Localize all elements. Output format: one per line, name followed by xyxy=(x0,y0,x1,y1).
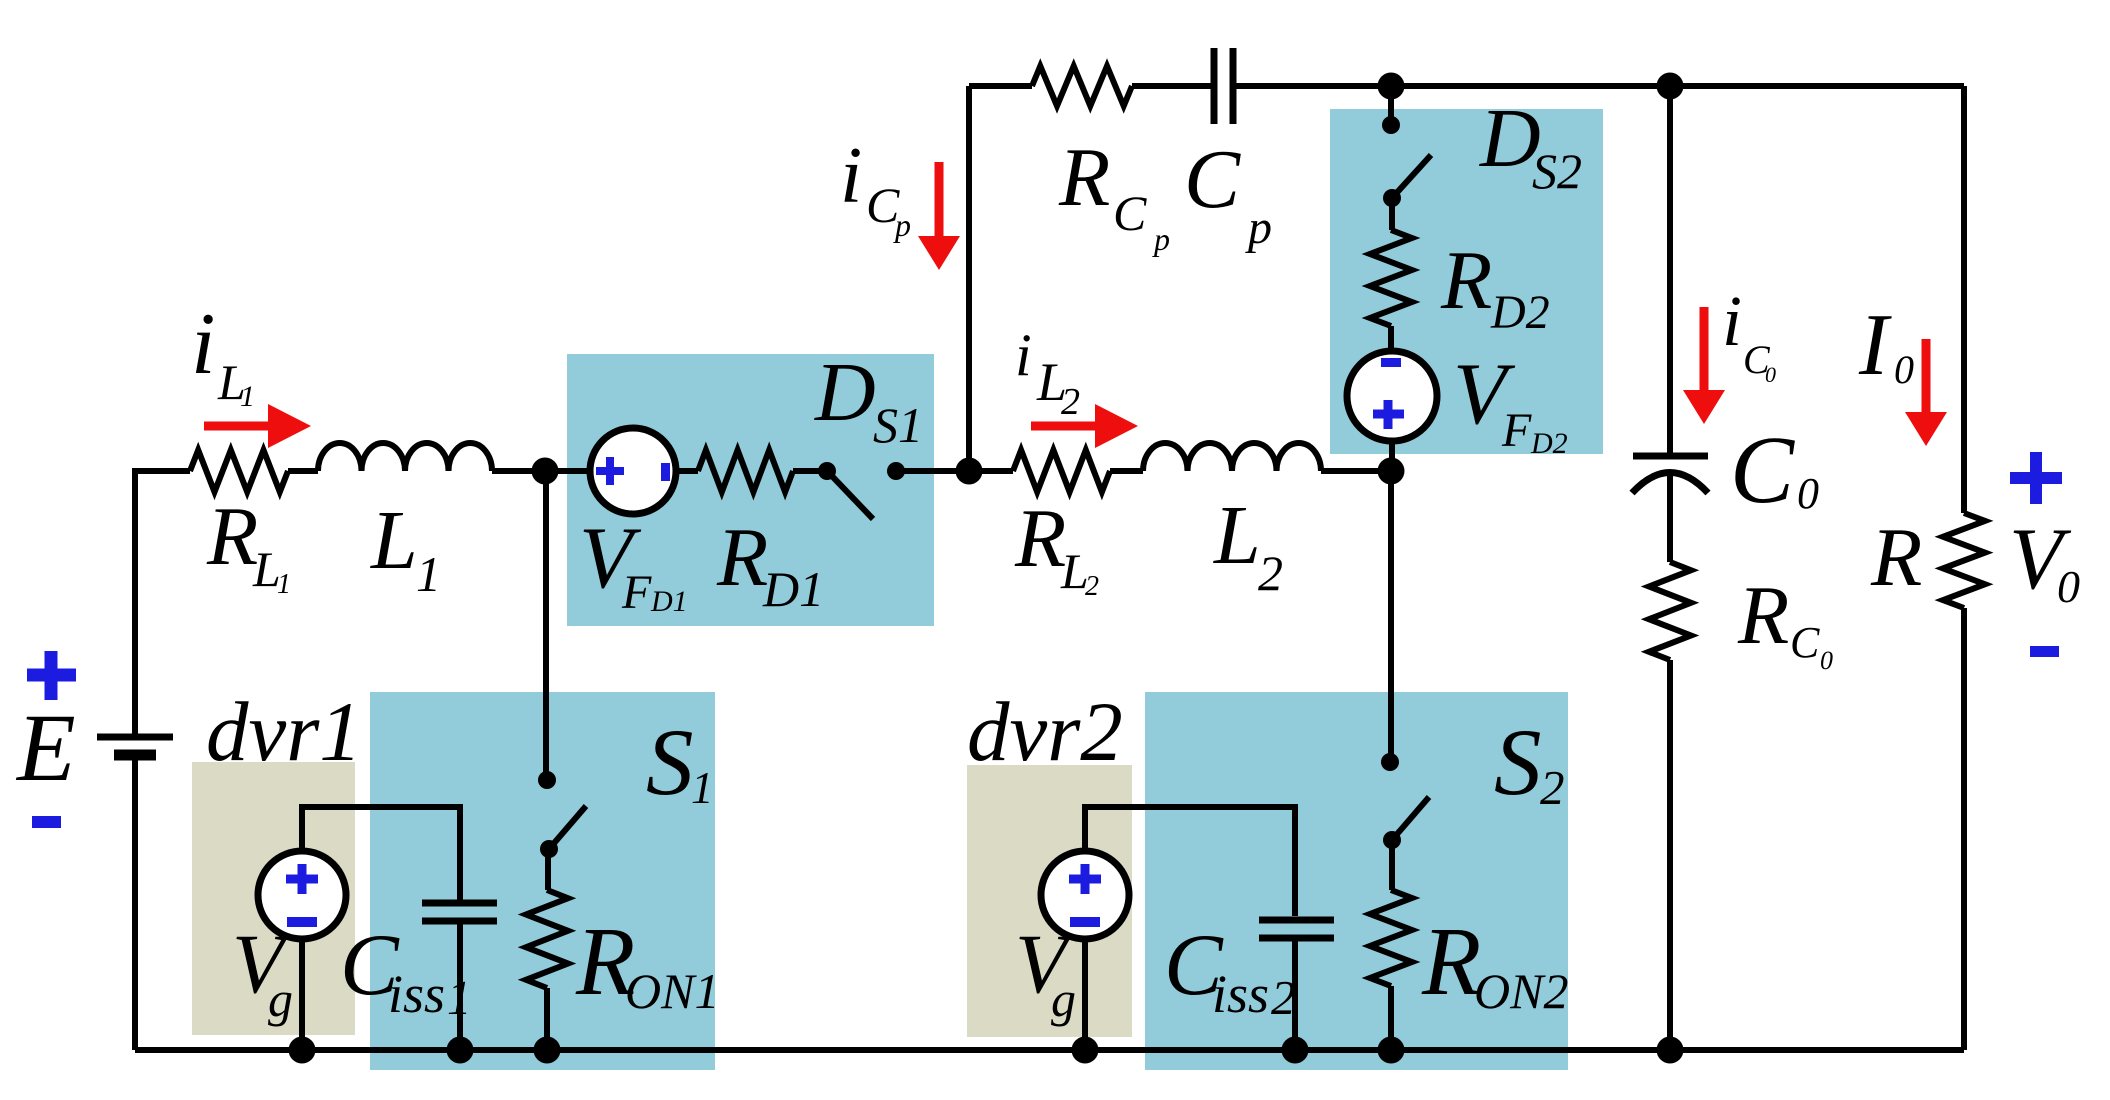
svg-text:C: C xyxy=(1113,185,1147,241)
inductor L1 xyxy=(318,443,492,471)
switch S2 top contact dot xyxy=(1381,753,1399,771)
svg-text:iss: iss xyxy=(388,964,445,1024)
label V_0 xyxy=(2009,511,2080,612)
switch S1 arm xyxy=(549,806,586,849)
label C_p xyxy=(1184,133,1272,254)
E minus sign xyxy=(32,816,61,828)
V_g dvr1 plus sign xyxy=(286,864,318,894)
wire node B to R_L2 xyxy=(969,468,1013,474)
V_g dvr1 minus sign xyxy=(287,917,317,927)
svg-text:D1: D1 xyxy=(650,585,688,618)
wire V_g1 top to gate of S1 xyxy=(302,807,460,900)
svg-text:ON1: ON1 xyxy=(625,963,719,1019)
svg-text:0: 0 xyxy=(1765,362,1776,387)
wire top rail into D_S2 xyxy=(1388,86,1394,125)
label C_0 xyxy=(1730,416,1819,523)
current arrow i_C0 xyxy=(1700,307,1709,396)
wire L1 to node A xyxy=(492,468,590,474)
wire: node B riser to top rail xyxy=(966,86,972,471)
svg-text:C: C xyxy=(1730,416,1795,523)
svg-text:R: R xyxy=(1737,569,1789,662)
V_g dvr2 plus sign xyxy=(1069,864,1101,894)
voltage source V_FD1 xyxy=(590,428,676,514)
capacitor C_0 curved plate xyxy=(1632,473,1708,494)
voltage source V_g of dvr2 xyxy=(1041,851,1129,939)
svg-text:2: 2 xyxy=(1061,381,1080,423)
wire node C down to switch S2 xyxy=(1388,471,1394,762)
resistor R_L2 xyxy=(1013,450,1110,492)
svg-text:i: i xyxy=(191,296,215,393)
label S_2 xyxy=(1494,709,1565,815)
wire R_L2 to L2 xyxy=(1110,468,1143,474)
label I_0 xyxy=(1858,297,1914,394)
label R_L2 xyxy=(1014,492,1099,602)
V_FD2 plus sign xyxy=(1373,400,1404,429)
junction dot node ground / V_g2 xyxy=(1072,1037,1099,1064)
svg-text:i: i xyxy=(1015,322,1032,388)
svg-text:dvr2: dvr2 xyxy=(967,685,1123,779)
wire R_D2 to V_FD2 xyxy=(1388,326,1394,350)
current arrow i_L2 xyxy=(1031,422,1101,431)
label R_D1 xyxy=(716,511,824,617)
svg-text:2: 2 xyxy=(1258,545,1283,601)
label V_g1 xyxy=(232,917,293,1027)
voltage source V_g of dvr1 xyxy=(258,851,346,939)
V_FD2 minus sign xyxy=(1381,358,1401,367)
svg-text:C: C xyxy=(1184,133,1241,226)
wire switch S2 to R_ON2 xyxy=(1389,840,1395,890)
svg-text:L: L xyxy=(370,494,418,587)
resistor R_L1 xyxy=(190,450,288,492)
wire C_iss1 to ground rail xyxy=(457,924,463,1050)
svg-text:R: R xyxy=(1014,492,1066,585)
wire R_C0 to ground rail xyxy=(1667,660,1673,1050)
switch model block S2 highlight xyxy=(1145,692,1568,1070)
wire C_p to top-right rail xyxy=(1236,83,1964,89)
resistor R_ON1 xyxy=(526,890,568,988)
resistor R (load) xyxy=(1943,513,1985,608)
svg-text:1: 1 xyxy=(240,380,255,413)
junction dot node A (L1 / V_FD1 / S1) xyxy=(532,458,559,485)
wire R_D1 to switch D_S1 xyxy=(793,468,822,474)
label S_1 xyxy=(646,709,714,815)
svg-text:R: R xyxy=(206,490,258,583)
label i_Cp xyxy=(840,132,911,243)
wire R load to ground rail xyxy=(1961,608,1967,1050)
resistor R_C0 xyxy=(1649,562,1691,660)
current arrow i_Cp xyxy=(935,162,944,242)
switch D_S1 right contact dot xyxy=(887,462,905,480)
svg-text:R: R xyxy=(1870,511,1922,604)
svg-text:S1: S1 xyxy=(873,397,923,453)
wire node A down to switch S1 xyxy=(543,471,549,780)
wire switch D_S2 to R_D2 xyxy=(1389,198,1395,230)
svg-text:0: 0 xyxy=(1797,469,1819,518)
wire R_ON1 to ground rail xyxy=(544,988,550,1050)
svg-text:0: 0 xyxy=(1894,347,1914,392)
resistor R_D2 xyxy=(1370,230,1412,326)
voltage source V_FD2 xyxy=(1347,351,1437,441)
label i_C0 xyxy=(1722,281,1776,387)
svg-text:E: E xyxy=(15,694,76,801)
wire R_Cp to C_p xyxy=(1132,83,1211,89)
svg-text:2: 2 xyxy=(1271,970,1296,1025)
capacitor C_iss1 plates xyxy=(422,903,497,921)
svg-text:1: 1 xyxy=(447,970,472,1025)
junction dot node ground / R_ON1 xyxy=(534,1037,561,1064)
svg-text:ON2: ON2 xyxy=(1474,963,1568,1019)
label i_L2 xyxy=(1015,322,1080,423)
junction dot node ground / R_ON2 xyxy=(1378,1037,1405,1064)
svg-text:g: g xyxy=(268,971,293,1027)
label D_S1 xyxy=(814,346,923,453)
wire C_0 to R_C0 xyxy=(1667,474,1673,562)
label dvr1 xyxy=(206,685,362,779)
junction dot node top rail / C_0 xyxy=(1657,73,1684,100)
E plus sign xyxy=(27,651,76,700)
driver block dvr1 highlight xyxy=(192,762,355,1035)
wire C_iss2 to ground rail xyxy=(1292,941,1298,1050)
svg-text:C: C xyxy=(1790,618,1820,667)
diode model block D_S1 highlight xyxy=(567,354,934,626)
label C_iss2 xyxy=(1164,917,1296,1025)
battery E short plate xyxy=(114,750,156,761)
current arrow i_L1 xyxy=(204,422,274,431)
svg-text:i: i xyxy=(840,132,862,220)
wire V_g2 bottom to ground rail xyxy=(1082,939,1088,1050)
wire switch S1 to R_ON1 xyxy=(545,849,551,890)
svg-text:p: p xyxy=(1152,221,1170,257)
wire V_FD2 to node C xyxy=(1389,441,1395,471)
battery E long plate xyxy=(97,734,173,741)
svg-text:L: L xyxy=(1213,489,1261,582)
svg-text:F: F xyxy=(621,566,652,619)
wire R_L1 to L1 xyxy=(288,468,318,474)
svg-text:S2: S2 xyxy=(1532,143,1582,199)
svg-text:R: R xyxy=(1421,908,1481,1015)
label C_iss1 xyxy=(340,917,472,1025)
svg-text:1: 1 xyxy=(277,569,291,600)
svg-text:p: p xyxy=(893,207,911,243)
wire top rail down to C_0 xyxy=(1667,86,1673,453)
diode model block D_S2 highlight xyxy=(1330,109,1603,454)
label R_ON2 xyxy=(1421,908,1568,1019)
svg-text:D1: D1 xyxy=(762,561,824,617)
label V_FD1 xyxy=(579,510,688,619)
wire L2 to node C xyxy=(1321,468,1391,474)
switch S1 top contact dot xyxy=(538,771,556,789)
junction dot node top rail / D_S2 xyxy=(1378,73,1405,100)
label E xyxy=(15,694,76,801)
current arrow I_0 xyxy=(1922,339,1931,418)
label V_FD2 xyxy=(1453,346,1568,460)
svg-text:D: D xyxy=(814,346,876,439)
junction dot node ground / V_g1 xyxy=(289,1037,316,1064)
svg-text:g: g xyxy=(1051,971,1076,1027)
svg-text:D2: D2 xyxy=(1490,286,1550,339)
junction dot node ground / C_0 branch xyxy=(1657,1037,1684,1064)
resistor R_ON2 xyxy=(1370,890,1412,986)
junction dot node ground / C_iss2 xyxy=(1282,1037,1309,1064)
wire V_g1 bottom to ground rail xyxy=(299,939,305,1050)
capacitor C_p plates xyxy=(1214,48,1233,124)
driver block dvr2 highlight xyxy=(967,765,1132,1037)
label L_2 xyxy=(1213,489,1283,601)
wire switch D_S1 to node B xyxy=(896,468,969,474)
label D_S2 xyxy=(1479,92,1582,199)
resistor R_Cp xyxy=(1032,66,1132,106)
svg-text:D2: D2 xyxy=(1530,427,1568,460)
switch S2 bottom contact dot xyxy=(1383,831,1401,849)
switch D_S2 top contact dot xyxy=(1382,116,1400,134)
wire: bottom ground rail xyxy=(135,1047,1964,1053)
label R_ON1 xyxy=(575,908,719,1019)
switch D_S2 arm xyxy=(1392,155,1431,198)
svg-text:S: S xyxy=(1494,709,1542,815)
switch S1 bottom contact dot xyxy=(540,840,558,858)
svg-text:0: 0 xyxy=(1820,646,1833,675)
svg-text:2: 2 xyxy=(1540,760,1565,815)
label R xyxy=(1870,511,1922,604)
capacitor C_iss2 plates xyxy=(1259,920,1334,938)
svg-text:R: R xyxy=(716,511,768,604)
switch D_S1 left contact dot xyxy=(818,462,836,480)
svg-text:F: F xyxy=(1501,404,1532,457)
junction dot node C (L2 / V_FD2 / S2) xyxy=(1378,458,1405,485)
label dvr2 xyxy=(967,685,1123,779)
V_FD1 minus sign (vertical bar) xyxy=(661,463,670,481)
wire: top rail to R_Cp xyxy=(969,83,1032,89)
label L_1 xyxy=(370,494,441,602)
V_g dvr2 minus sign xyxy=(1070,917,1100,927)
svg-text:I: I xyxy=(1858,297,1892,394)
junction dot node B (D_S1 / R_L2 / C_p riser) xyxy=(956,458,983,485)
svg-text:dvr1: dvr1 xyxy=(206,685,362,779)
svg-text:S: S xyxy=(646,709,694,815)
switch model block S1 highlight xyxy=(370,692,715,1070)
svg-text:1: 1 xyxy=(416,546,441,602)
svg-text:i: i xyxy=(1722,281,1742,361)
wire R_ON2 to ground rail xyxy=(1388,986,1394,1050)
svg-text:R: R xyxy=(1440,234,1492,327)
svg-text:iss: iss xyxy=(1212,964,1269,1024)
wire top rail down to R load xyxy=(1961,86,1967,513)
svg-text:1: 1 xyxy=(691,763,714,813)
V_FD1 plus sign xyxy=(596,457,624,485)
switch S2 arm xyxy=(1392,797,1429,840)
label R_L1 xyxy=(206,490,291,600)
svg-text:0: 0 xyxy=(2057,561,2080,612)
wire: left rail bottom (E - terminal to ground rail) xyxy=(132,755,138,1050)
V_0 plus sign xyxy=(2010,452,2062,504)
label V_g2 xyxy=(1015,917,1076,1027)
label R_C0 xyxy=(1737,569,1833,675)
inductor L2 xyxy=(1143,443,1321,471)
switch D_S1 arm xyxy=(830,474,873,519)
switch D_S2 bottom contact dot xyxy=(1383,189,1401,207)
wire V_FD1 to R_D1 xyxy=(676,468,698,474)
svg-text:R: R xyxy=(1058,131,1110,224)
label i_L1 xyxy=(191,296,255,413)
svg-text:p: p xyxy=(1245,201,1272,254)
wire: left rail top (E + terminal to input) xyxy=(135,471,190,737)
label R_Cp xyxy=(1058,131,1170,257)
resistor R_D1 xyxy=(698,450,793,492)
label R_D2 xyxy=(1440,234,1550,339)
svg-text:2: 2 xyxy=(1085,571,1099,602)
junction dot node ground / C_iss1 xyxy=(447,1037,474,1064)
V_0 minus sign xyxy=(2030,646,2059,657)
wire V_g2 top to gate of S2 xyxy=(1085,807,1295,916)
capacitor C_0 straight plate xyxy=(1633,453,1708,460)
